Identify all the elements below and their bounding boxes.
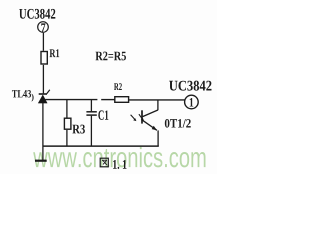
figure caption 图1.1 [100,158,126,169]
annotation R2=R5 [95,52,125,61]
IC label UC3842 (right, pin 1) [169,81,211,91]
capacitor C1 [86,110,108,119]
watermark www.cntronics.com [33,147,205,168]
resistor R3 [64,118,85,133]
node wire (reference node, horizontal) [45,99,97,101]
resistor R2 label [114,83,122,90]
ground bus wire [43,145,159,147]
resistor R1 [41,49,59,64]
wire R3 to bus [66,130,68,146]
pin 7 terminal circle [38,22,49,33]
TL431 triangle (anode) [38,95,47,103]
node wire segment to R2 [101,99,115,101]
phototransistor OT1 collector [143,110,158,117]
phototransistor OT1 base bar [141,110,143,123]
phototransistor OT1 emitter with arrow [143,120,157,130]
wire emitter to bus [157,130,159,146]
light arrow 1 [131,115,137,121]
resistor R2 [115,97,129,103]
pin 1 terminal circle [185,95,199,109]
optocoupler label 0T1/2 [165,119,191,128]
wire R1 to TL431 cathode [42,65,44,94]
wire collector drop [157,100,159,110]
TL431 label [12,90,31,98]
wire node to C1 [90,100,92,112]
wire TL431 anode to ground [42,103,44,160]
ground bar [35,160,47,162]
wire pin7 to R1 [42,33,44,51]
TL431 cathode bar [39,93,47,95]
wire node to R3 [66,100,68,118]
TL431 label trailing glyph [32,94,34,102]
IC label UC3842 (left, pin 7) [19,9,55,19]
TL431 reference tick [47,90,50,94]
light arrow 2 [139,114,144,121]
wire C1 to bus [90,116,92,146]
wire R2 to pin 1 [129,99,185,101]
